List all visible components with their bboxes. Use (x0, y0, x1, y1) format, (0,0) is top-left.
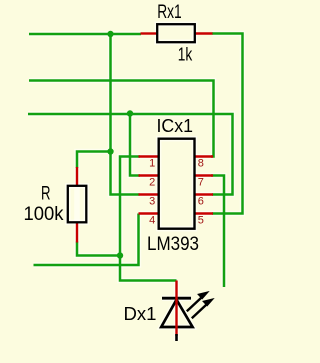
svg-text:3: 3 (149, 196, 155, 208)
op-amp IC U1 pin 8 stub (196, 155, 214, 157)
junction net3 at pin2 branch (127, 110, 133, 116)
resistor Rx1 lead right (196, 32, 213, 34)
resistor Rx1 body (157, 24, 195, 42)
wire R bottom link (77, 242, 120, 256)
LED Dx1 lead top and through triangle (175, 281, 177, 337)
wire R top link (77, 152, 111, 169)
wire pin5 to Rx1 right (212, 34, 243, 214)
junction net1 at R top (107, 148, 113, 154)
op-amp IC U1 pin 1 stub (139, 155, 158, 157)
resistor Rx1 lead left (141, 32, 157, 34)
wire pin7 dangling down (211, 176, 224, 288)
IC ICx1 body (159, 139, 195, 229)
wire net1 vertical drop to pin3 (111, 34, 140, 195)
junction net1 top (107, 31, 113, 37)
svg-text:4: 4 (149, 215, 155, 227)
op-amp IC U1 pin 2 stub (139, 174, 158, 176)
LED Dx1 cathode bar (162, 297, 191, 300)
LED Dx1 triangle (161, 300, 192, 327)
resistor R body (68, 186, 87, 223)
wire pin1 link down to LED (120, 157, 177, 281)
svg-text:5: 5 (198, 215, 204, 227)
op-amp IC U1 pin 5 stub (196, 212, 214, 214)
svg-text:R: R (41, 184, 51, 205)
svg-text:6: 6 (198, 196, 204, 208)
svg-text:1: 1 (149, 158, 155, 170)
resistor R lead top (76, 167, 78, 186)
halo layer (rendering artifact imitation) (28, 24, 243, 341)
svg-text:Dx1: Dx1 (124, 303, 157, 324)
LED Dx1 arrow 1 (187, 292, 208, 311)
wire net2 to pin8 (29, 81, 214, 157)
svg-text:2: 2 (149, 177, 155, 189)
resistor R lead bottom (76, 223, 78, 243)
svg-text:7: 7 (198, 177, 204, 189)
wire net3 to pin6 (28, 114, 233, 195)
wire net4 to pin4 (34, 214, 139, 266)
svg-text:LM393: LM393 (147, 234, 199, 255)
wire pin2 link (130, 114, 140, 176)
svg-text:100k: 100k (24, 204, 64, 225)
op-amp IC U1 pin 3 stub (139, 193, 158, 195)
wire net1 top horizontal (29, 33, 141, 36)
op-amp IC U1 pin 4 stub (139, 212, 158, 214)
svg-text:Rx1: Rx1 (157, 2, 182, 23)
op-amp IC U1 pin 7 stub (196, 174, 214, 176)
svg-text:1k: 1k (178, 44, 193, 64)
junction at R bottom (117, 252, 123, 258)
LED Dx1 arrow 2 (192, 299, 213, 318)
LED Dx1 lead end black (175, 334, 178, 341)
svg-text:ICx1: ICx1 (157, 115, 194, 136)
op-amp IC U1 pin 6 stub (196, 193, 214, 195)
svg-text:8: 8 (198, 158, 204, 170)
